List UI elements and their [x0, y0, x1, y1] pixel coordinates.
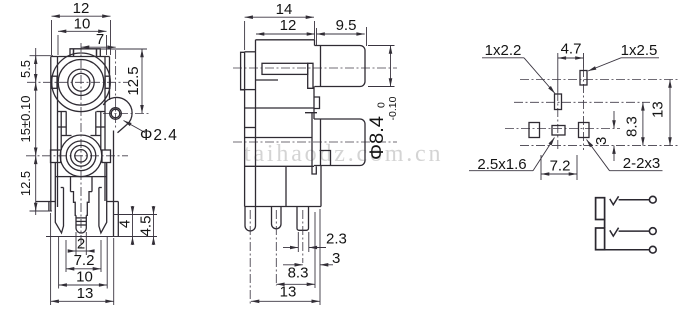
- svg-text:15±0.10: 15±0.10: [18, 96, 33, 143]
- dim 8.3: [314, 212, 316, 288]
- dim 12 top: [52, 15, 111, 17]
- neck seam left: [60, 112, 62, 151]
- notch under bottom barrel: [320, 151, 331, 166]
- svg-text:8.3: 8.3: [288, 265, 309, 282]
- internal line y80: [256, 79, 279, 81]
- top jack circle inner: [72, 73, 90, 91]
- svg-text:14: 14: [276, 1, 293, 18]
- dim 14: [244, 21, 246, 50]
- left leg top notch: [61, 187, 64, 189]
- pad 2x3 right: [579, 123, 590, 138]
- footprint row line 3: [505, 128, 620, 130]
- body right lower edge: [320, 166, 322, 207]
- svg-text:10: 10: [74, 16, 91, 33]
- dim phi 8.4 0/-0.10: [368, 45, 395, 47]
- neck shoulder right: [97, 111, 106, 113]
- mounting ear lower diagonal: [118, 125, 127, 133]
- jack1 terminal circle: [649, 196, 656, 203]
- stem upper right: [91, 177, 93, 192]
- right bracket step: [107, 201, 119, 203]
- internal line y137.5: [245, 137, 312, 139]
- dim 13: [251, 300, 320, 302]
- right leg: [99, 163, 107, 233]
- pad 2x3 left: [529, 123, 540, 138]
- svg-text:3: 3: [332, 250, 340, 267]
- neck shoulder left: [58, 111, 67, 113]
- shoulder above bottom circle right: [91, 135, 101, 137]
- pin C centerline: [302, 210, 304, 263]
- right shell edge upper: [109, 57, 111, 101]
- centerline mounting hole horizontal: [103, 113, 150, 115]
- body right upper corner: [314, 40, 316, 46]
- svg-text:Φ2.4: Φ2.4: [140, 127, 178, 144]
- svg-text:4.5: 4.5: [138, 216, 155, 237]
- pad 1x2.2 middle: [555, 94, 562, 110]
- center contact slot: [262, 63, 308, 74]
- footprint row line 2: [514, 101, 650, 103]
- centerline vertical axis front view: [80, 43, 82, 248]
- svg-text:2: 2: [77, 236, 85, 253]
- chord under bottom circle: [70, 176, 92, 178]
- bottom jack right crimp tab: [102, 150, 111, 163]
- left bracket step: [36, 202, 55, 212]
- dim 13 footprint: [669, 80, 671, 146]
- pin B: [272, 207, 282, 229]
- shoulder under circle right: [92, 176, 107, 178]
- svg-text:7: 7: [96, 31, 104, 48]
- jack2 contact line: [619, 230, 650, 232]
- footprint row line 4: [520, 145, 679, 147]
- svg-text:Φ8.4: Φ8.4: [366, 116, 388, 160]
- svg-text:12: 12: [73, 0, 90, 17]
- centerline mounting hole vertical / ext of dim 7: [115, 50, 117, 128]
- left outer shell edge: [50, 57, 52, 212]
- jack2 terminal circle: [649, 228, 656, 235]
- centerline bottom jack horizontal: [26, 155, 128, 157]
- bottom jack left crimp tab: [51, 150, 61, 163]
- svg-text:10: 10: [76, 269, 93, 286]
- vertical centerline top pad: [583, 53, 585, 68]
- body left step: [245, 51, 256, 53]
- svg-text:2.3: 2.3: [326, 231, 347, 248]
- body bottom edge: [245, 206, 321, 208]
- tick top edge: [30, 55, 54, 57]
- footprint row line 1: [520, 79, 679, 81]
- centerline top jack horizontal: [27, 81, 128, 83]
- svg-text:1x2.2: 1x2.2: [485, 42, 522, 59]
- pin ridge 3: [76, 224, 86, 226]
- neck seam right: [100, 112, 102, 151]
- svg-text:7.2: 7.2: [74, 252, 95, 269]
- svg-text:7.2: 7.2: [550, 158, 571, 175]
- top barrel: [315, 46, 366, 87]
- internal line y166: [245, 165, 314, 167]
- mounting ear arc: [103, 97, 132, 124]
- solder pin right edge: [85, 215, 87, 228]
- pin ridge 2: [76, 220, 86, 222]
- small tab right edge: [314, 97, 320, 109]
- left leg: [55, 163, 63, 233]
- svg-text:13: 13: [77, 285, 94, 302]
- dim 10 top: [58, 30, 107, 32]
- dim 12.5 right: [100, 48, 147, 50]
- left seam line: [57, 57, 59, 208]
- svg-text:1x2.5: 1x2.5: [621, 42, 658, 59]
- pad 1x2.5 top: [580, 71, 587, 86]
- svg-text:2-2x3: 2-2x3: [623, 155, 661, 172]
- left dim chain line: [35, 48, 37, 215]
- body left edge: [244, 52, 246, 207]
- body right edge between barrels: [313, 87, 315, 120]
- svg-text:12.5: 12.5: [125, 66, 142, 95]
- top tab inner ticks: [73, 49, 75, 57]
- dim 9.5: [317, 33, 365, 35]
- svg-text:13: 13: [280, 284, 297, 301]
- top jack circle ring2: [58, 60, 104, 106]
- jack 1 body rect: [596, 198, 605, 220]
- ground terminal circle: [649, 246, 656, 253]
- body top edge: [51, 56, 110, 58]
- stem upper left: [70, 177, 72, 192]
- top jack circle ring3: [68, 69, 94, 95]
- jack1 contact tick: [610, 196, 619, 204]
- bottom chain dim 7.2: [65, 240, 67, 272]
- bottom chain dim 13: [50, 213, 52, 305]
- body inner left edge: [255, 40, 257, 207]
- svg-text:13: 13: [650, 101, 667, 118]
- mounting hole outer ring: [110, 108, 122, 120]
- shoulder under circle left: [55, 176, 70, 178]
- dim 3 footprint: [613, 111, 615, 129]
- body top edge: [256, 39, 315, 41]
- right bracket edge lower: [113, 131, 115, 237]
- neck seam right inner: [95, 112, 97, 137]
- stem step right: [86, 192, 92, 216]
- bottom chain dim 10: [58, 237, 60, 289]
- bottom barrel: [314, 119, 365, 166]
- pin ridge 1: [76, 217, 86, 219]
- chain arrows: [35, 56, 37, 62]
- pad 2.5x1.6 middle: [552, 126, 565, 136]
- dim 4 / 4.5 ticks: [114, 214, 158, 216]
- pin C: [297, 207, 309, 231]
- label phi 2.4 with leader: [124, 121, 146, 133]
- top tab of shell: [70, 49, 100, 57]
- svg-text:4.7: 4.7: [561, 41, 582, 58]
- connecting bus vertical: [604, 220, 606, 229]
- stem step left: [71, 192, 77, 216]
- dim 12: [256, 33, 315, 35]
- left column detail line B: [245, 127, 256, 129]
- dim 2.3: [297, 232, 299, 252]
- bottom jack circle ring3: [71, 145, 92, 166]
- internal vertical x286: [285, 166, 287, 206]
- vertical centerline mid pad: [557, 53, 559, 92]
- pin B centerline: [275, 210, 277, 286]
- axis bottom jack: [233, 141, 397, 143]
- ground line: [605, 249, 650, 251]
- bottom jack circle ring2: [66, 141, 96, 171]
- dim 4.5: [153, 206, 155, 215]
- right seam line: [104, 57, 106, 151]
- svg-text:8.3: 8.3: [624, 116, 641, 137]
- pin A: [245, 207, 256, 231]
- jack2 contact tick: [610, 228, 619, 236]
- top barrel inner ring: [320, 46, 322, 87]
- pin A centerline: [249, 210, 251, 304]
- svg-text:12.5: 12.5: [18, 171, 33, 196]
- bottom jack circle outer: [60, 135, 102, 177]
- solder pin left edge: [75, 215, 77, 228]
- tick bottom bracket: [30, 210, 53, 212]
- svg-text:0: 0: [376, 102, 388, 108]
- right bracket fold edge: [117, 202, 119, 237]
- solder pin tip: [76, 229, 86, 233]
- top tab inner ticks: [73, 49, 75, 57]
- dim 7.2 footprint: [540, 155, 542, 180]
- svg-text:5.5: 5.5: [18, 60, 33, 78]
- slot divider: [308, 63, 313, 88]
- jack 2 body rect: [596, 228, 605, 250]
- dim 7 top: [81, 46, 116, 48]
- dim 3: [319, 209, 321, 305]
- left plate outer bump: [241, 52, 245, 90]
- left column detail line A: [241, 89, 256, 91]
- dim 4.7: [558, 57, 584, 59]
- mounting hole inner ring: [111, 109, 120, 118]
- neck seam left inner: [65, 112, 67, 137]
- bottom barrel inner ring: [320, 119, 322, 166]
- svg-text:-0.10: -0.10: [387, 96, 399, 120]
- top jack left crimp tab: [52, 76, 57, 88]
- right leg top notch: [99, 187, 102, 189]
- shoulder above bottom circle left: [61, 135, 71, 137]
- bottom jack circle inner: [75, 150, 87, 162]
- dim 4: [132, 206, 134, 215]
- neck step right: [96, 126, 105, 128]
- axis top jack: [233, 67, 397, 69]
- svg-text:4: 4: [117, 220, 134, 228]
- right seam line lower: [104, 163, 106, 201]
- internal line y108: [245, 107, 314, 109]
- neck step left: [58, 126, 67, 128]
- bottom chain dim 2: [75, 232, 77, 255]
- svg-text:12: 12: [280, 17, 297, 34]
- jack1 contact line: [619, 199, 650, 201]
- svg-text:3: 3: [593, 137, 610, 145]
- svg-text:9.5: 9.5: [336, 17, 357, 34]
- svg-text:taihaodz.com.cn: taihaodz.com.cn: [244, 141, 443, 167]
- dim 8.3 footprint: [642, 102, 644, 145]
- top jack right crimp tab: [105, 76, 110, 88]
- shield bar at bottom barrel left: [305, 113, 317, 174]
- top jack circle outer: [52, 53, 111, 112]
